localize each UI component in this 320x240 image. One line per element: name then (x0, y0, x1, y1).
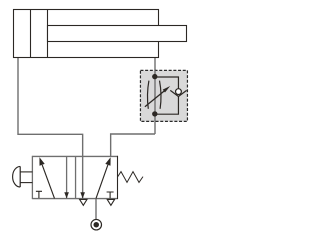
right cell blocked port T (107, 192, 114, 198)
right cell flow path 4 to 5 arrowhead (80, 192, 85, 198)
flow control internal bypass line bottom (155, 97, 179, 115)
left cell diagonal flow path 1 to 4 (42, 165, 54, 199)
left cell blocked port T (36, 191, 42, 198)
pushbutton link upper (20, 171, 32, 173)
cylinder body (14, 10, 159, 58)
flow control valve dashed enclosure (140, 70, 187, 121)
compressed air source circle (91, 219, 102, 230)
cylinder piston left line (30, 10, 32, 58)
throttle left arc (147, 81, 148, 109)
wire from flow control valve to valve port 2 (111, 134, 155, 157)
throttle right arc (160, 81, 162, 109)
5/2 valve body left edge (31, 156, 33, 199)
wire from valve port 1 to air source (95, 199, 97, 220)
compressed air source dot (94, 222, 100, 228)
5/2 valve cell divider (75, 156, 77, 198)
throttle adjustment arrow (145, 91, 165, 107)
5/2 valve body right edge (117, 156, 119, 199)
pushbutton plate (19, 166, 21, 187)
cylinder piston rod (48, 26, 187, 42)
right cell diagonal flow path 1 to 2 (96, 165, 108, 199)
flow control internal bypass line top (155, 77, 179, 89)
exhaust triangle port 5 (80, 199, 87, 205)
left cell flow path 2 to 3 (gray pipe) (66, 156, 68, 198)
check valve ball (176, 89, 182, 95)
wire from cylinder right port through flow control valve (154, 58, 156, 134)
5/2 valve body bottom edge (32, 198, 117, 200)
exhaust triangle port 3 (107, 199, 114, 205)
node top of flow control (152, 74, 157, 79)
pushbutton actuator cap (13, 166, 21, 187)
pushbutton link lower (20, 182, 32, 184)
check valve seat V (170, 90, 186, 96)
wire from cylinder left port to valve port 4 (18, 58, 83, 198)
cylinder piston right line (47, 10, 49, 58)
5/2 valve body top edge (32, 155, 117, 157)
wire through flow control valve (154, 70, 156, 121)
node bottom of flow control (152, 111, 157, 116)
return spring (118, 172, 144, 183)
